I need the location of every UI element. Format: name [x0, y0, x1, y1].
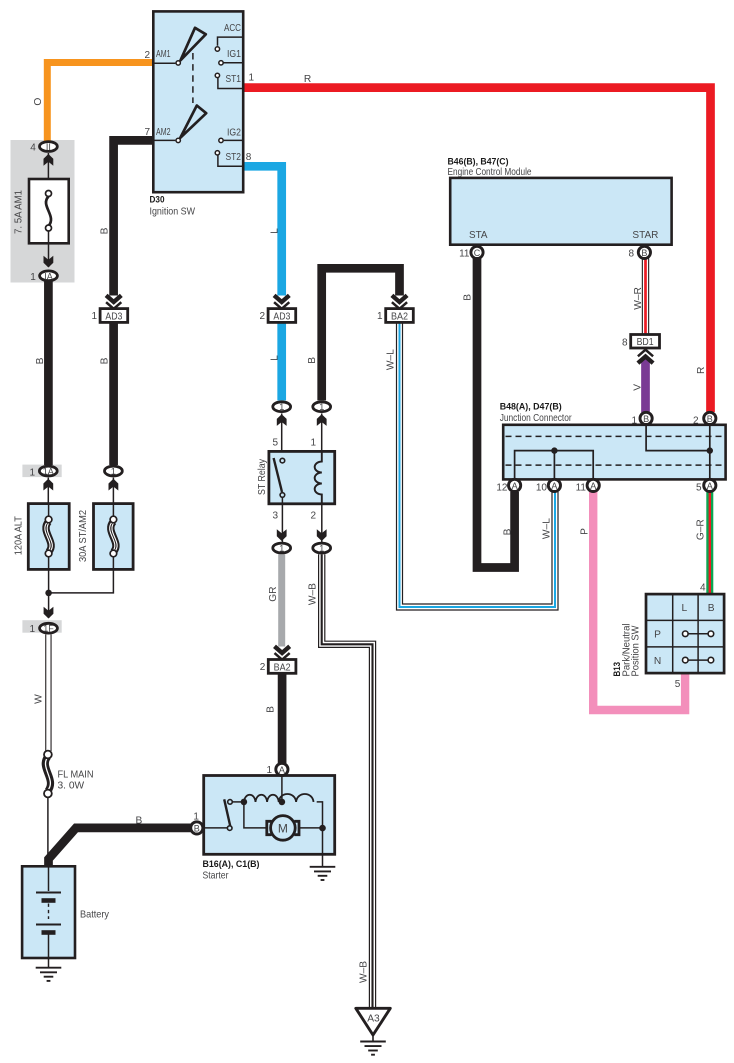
- svg-text:M: M: [278, 821, 288, 835]
- svg-text:L: L: [681, 603, 687, 614]
- svg-text:AD3: AD3: [105, 312, 122, 323]
- svg-text:B: B: [307, 357, 318, 364]
- svg-text:A: A: [707, 481, 713, 491]
- svg-text:B: B: [462, 294, 473, 301]
- svg-text:A: A: [590, 481, 596, 491]
- svg-text:1: 1: [319, 402, 324, 412]
- svg-text:ST2: ST2: [226, 152, 242, 163]
- svg-text:AM2: AM2: [156, 127, 171, 138]
- svg-text:5: 5: [675, 679, 681, 690]
- svg-text:P: P: [654, 629, 661, 640]
- svg-text:B: B: [35, 357, 46, 364]
- svg-text:W–L: W–L: [542, 518, 553, 539]
- svg-text:1: 1: [193, 811, 199, 822]
- svg-text:W–L: W–L: [385, 349, 396, 370]
- svg-text:L: L: [269, 355, 280, 361]
- svg-text:Ignition SW: Ignition SW: [150, 206, 196, 217]
- svg-text:V: V: [632, 384, 643, 391]
- svg-text:5: 5: [696, 482, 702, 493]
- svg-text:30A ST/AM2: 30A ST/AM2: [78, 510, 89, 562]
- svg-text:Starter: Starter: [203, 870, 230, 881]
- svg-text:Junction Connector: Junction Connector: [500, 413, 572, 424]
- svg-text:BA2: BA2: [274, 662, 291, 673]
- svg-text:Position SW: Position SW: [631, 625, 642, 676]
- svg-text:1: 1: [91, 311, 97, 322]
- svg-text:GR: GR: [268, 586, 279, 601]
- svg-text:BA2: BA2: [391, 312, 408, 323]
- svg-text:B: B: [503, 528, 514, 535]
- svg-text:11: 11: [459, 248, 470, 259]
- svg-text:R: R: [304, 74, 311, 85]
- svg-text:1: 1: [377, 311, 383, 322]
- svg-text:B: B: [643, 414, 649, 424]
- svg-text:W–B: W–B: [307, 583, 318, 605]
- svg-text:4: 4: [700, 582, 706, 593]
- svg-text:1: 1: [310, 438, 316, 449]
- svg-text:1: 1: [249, 73, 255, 84]
- svg-text:2: 2: [693, 415, 699, 426]
- svg-text:AM1: AM1: [156, 49, 171, 60]
- svg-text:1: 1: [266, 765, 272, 776]
- svg-text:2: 2: [259, 311, 265, 322]
- svg-text:1A: 1A: [43, 467, 54, 477]
- svg-text:3: 3: [272, 511, 278, 522]
- svg-text:120A ALT: 120A ALT: [14, 516, 25, 555]
- svg-text:7: 7: [144, 127, 150, 138]
- svg-text:1: 1: [279, 402, 284, 412]
- svg-text:2: 2: [310, 511, 316, 522]
- svg-text:B48(A), D47(B): B48(A), D47(B): [500, 401, 562, 412]
- svg-text:D30: D30: [150, 194, 165, 205]
- svg-text:IG1: IG1: [227, 49, 241, 60]
- svg-text:1: 1: [111, 467, 116, 477]
- svg-text:FL MAIN: FL MAIN: [58, 770, 94, 781]
- svg-text:1: 1: [319, 544, 324, 554]
- svg-text:8: 8: [622, 338, 628, 349]
- svg-text:AD3: AD3: [273, 312, 290, 323]
- svg-text:B: B: [641, 248, 647, 258]
- svg-text:1: 1: [29, 467, 35, 478]
- svg-text:B: B: [707, 414, 713, 424]
- svg-text:B16(A), C1(B): B16(A), C1(B): [203, 859, 260, 870]
- svg-text:8: 8: [628, 248, 634, 259]
- svg-text:G–R: G–R: [695, 519, 706, 540]
- svg-text:O: O: [33, 98, 44, 106]
- svg-text:Engine Control Module: Engine Control Module: [448, 167, 532, 178]
- svg-text:5: 5: [272, 438, 278, 449]
- svg-text:STA: STA: [469, 230, 488, 241]
- svg-text:B: B: [266, 706, 277, 713]
- svg-text:2: 2: [144, 50, 150, 61]
- svg-text:1: 1: [279, 544, 284, 554]
- svg-text:W–R: W–R: [633, 287, 644, 310]
- svg-text:ST1: ST1: [226, 74, 242, 85]
- svg-text:A: A: [551, 481, 557, 491]
- svg-text:B: B: [708, 603, 715, 614]
- svg-text:1: 1: [29, 624, 35, 635]
- svg-text:P: P: [580, 528, 591, 535]
- svg-text:1F: 1F: [43, 624, 54, 634]
- svg-text:L: L: [269, 228, 280, 234]
- svg-text:B46(B), B47(C): B46(B), B47(C): [448, 156, 509, 167]
- svg-text:B: B: [100, 227, 111, 234]
- svg-text:B: B: [136, 816, 143, 827]
- svg-text:W–B: W–B: [359, 961, 370, 983]
- svg-text:STAR: STAR: [632, 230, 658, 241]
- svg-text:W: W: [34, 694, 45, 704]
- svg-text:2: 2: [260, 662, 266, 673]
- svg-text:II: II: [46, 142, 51, 152]
- svg-text:A: A: [512, 481, 518, 491]
- svg-text:ACC: ACC: [224, 23, 241, 34]
- svg-text:N: N: [654, 656, 661, 667]
- svg-text:IA: IA: [44, 271, 53, 281]
- svg-text:Battery: Battery: [80, 910, 110, 921]
- svg-text:12: 12: [496, 482, 508, 493]
- svg-text:A: A: [279, 765, 285, 775]
- svg-text:BD1: BD1: [637, 337, 654, 348]
- svg-text:1: 1: [631, 415, 637, 426]
- svg-text:A3: A3: [367, 1014, 380, 1025]
- svg-text:3. 0W: 3. 0W: [58, 781, 85, 792]
- svg-text:C: C: [474, 248, 481, 258]
- svg-text:11: 11: [576, 482, 587, 493]
- svg-text:ST Relay: ST Relay: [257, 458, 268, 495]
- svg-text:8: 8: [246, 152, 252, 163]
- svg-text:R: R: [696, 367, 707, 374]
- svg-text:4: 4: [30, 143, 36, 154]
- svg-text:IG2: IG2: [227, 128, 241, 139]
- svg-text:7. 5A AM1: 7. 5A AM1: [13, 190, 24, 234]
- svg-text:1: 1: [30, 272, 36, 283]
- svg-text:B: B: [194, 824, 200, 834]
- svg-text:10: 10: [536, 482, 548, 493]
- svg-text:B: B: [100, 357, 111, 364]
